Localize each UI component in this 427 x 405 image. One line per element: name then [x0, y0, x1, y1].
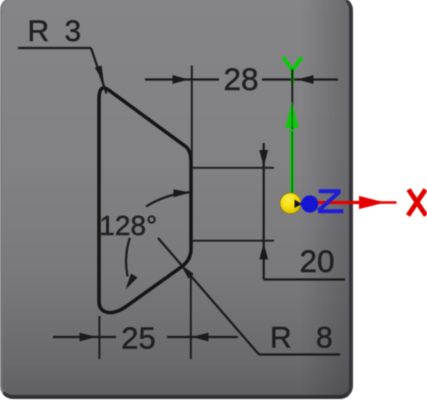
arrow 28 right [297, 75, 314, 84]
radius dimension R3 [18, 48, 107, 94]
dimension 25 [53, 272, 238, 359]
arrow 20 top [259, 150, 268, 167]
arrow 28 left [173, 75, 190, 84]
svg-text:20: 20 [300, 243, 335, 279]
wire: lower arc segment [126, 238, 130, 276]
arrow R8 [181, 264, 194, 278]
arrow 128 upper [173, 189, 190, 197]
svg-text:8: 8 [316, 322, 333, 355]
wire: vertical dimension line [263, 143, 265, 280]
Y axis label [284, 59, 301, 84]
wire: text underline [18, 47, 91, 49]
wire: leader to fillet [91, 48, 107, 94]
wire: dim line left segment [53, 336, 116, 338]
Y axis line (green) [290, 129, 294, 194]
wire: right extension line [190, 272, 192, 359]
wire: text leader [264, 278, 345, 280]
radius dimension R8 [158, 238, 340, 355]
wire: top extension line [192, 167, 274, 169]
wire: dim line right segment [262, 78, 338, 80]
wire: extension line at shape corner [191, 66, 193, 159]
wire: text underline [259, 353, 340, 355]
dimension 20 [192, 143, 345, 280]
origin ball [280, 193, 301, 214]
wire: dim line left segment [145, 78, 219, 80]
Y axis line upper (black) [291, 69, 293, 194]
svg-text:R: R [270, 322, 292, 355]
arrow 128 lower [126, 274, 138, 290]
arrow 25 left [80, 333, 97, 342]
Z axis cone [301, 195, 318, 212]
X axis line (red) [316, 201, 380, 204]
svg-text:25: 25 [121, 321, 155, 356]
Z axis label [318, 191, 343, 211]
dimension 28 [145, 66, 338, 159]
arrow 20 bottom [259, 243, 268, 260]
wire: left extension line [98, 316, 100, 359]
angle dimension 128 deg [126, 192, 190, 276]
origin ball notch [295, 200, 303, 209]
arrow 25 right [192, 333, 209, 342]
arrow R3 [95, 65, 104, 82]
wire: dim line right segment [167, 336, 238, 338]
svg-text:28: 28 [224, 61, 259, 97]
Y axis line core [291, 104, 293, 193]
svg-text:R: R [28, 15, 50, 48]
Y axis arrowhead [285, 102, 299, 129]
svg-text:3: 3 [65, 15, 82, 48]
wire: radial leader [158, 238, 259, 355]
X axis arrowhead [359, 196, 385, 209]
profile outline [99, 88, 191, 313]
wire: upper arc segment [146, 192, 191, 206]
wire: bottom extension line [192, 240, 274, 242]
X axis label [408, 190, 426, 216]
svg-text:128°: 128° [99, 210, 157, 241]
